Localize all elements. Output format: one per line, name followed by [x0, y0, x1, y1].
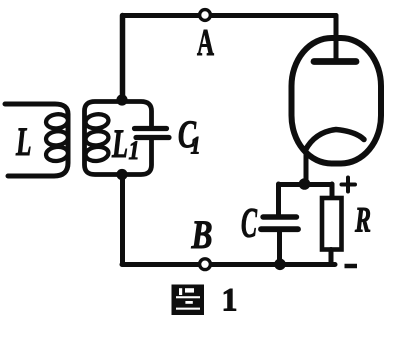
coil L loop 3 [45, 146, 69, 163]
capacitor C1 bottom plate [136, 135, 169, 140]
tube V1 envelope [292, 38, 382, 164]
primary coil L frame (top and bottom leads) [5, 104, 68, 176]
coil L loop 1 [45, 113, 69, 130]
wire: cathode node horizontal [279, 182, 333, 187]
tube plate (anode) [314, 58, 356, 65]
svg-text:1: 1 [129, 136, 140, 165]
wire: down to resistor R [330, 184, 335, 199]
coil L1 loop 1 [85, 113, 110, 130]
wire: resistor R to bottom line [329, 250, 334, 265]
junction dot: L1 bottom [116, 169, 127, 180]
svg-text:L: L [15, 119, 31, 164]
svg-text:L: L [111, 121, 128, 166]
wire: top horizontal A-line [123, 13, 336, 18]
svg-text:1: 1 [191, 133, 201, 160]
wire: capacitor C to bottom line [277, 231, 282, 265]
resistor R body [322, 198, 342, 250]
plus sign [342, 178, 356, 192]
wire: down to capacitor C [276, 184, 281, 215]
coil L1 loop 2 [85, 130, 110, 147]
svg-text:B: B [191, 212, 213, 257]
minus sign [345, 264, 358, 269]
junction dot: C bottom [274, 259, 286, 271]
coil L loop 2 [45, 130, 69, 147]
secondary tank loop L1/C1 frame [85, 102, 152, 175]
capacitor C top plate [263, 214, 297, 219]
coil L1 loop 3 [85, 146, 110, 163]
tube cathode lead [304, 148, 309, 184]
capacitor C1 top plate [135, 126, 167, 131]
capacitor C bottom plate [261, 226, 298, 232]
node B terminal [200, 259, 211, 270]
wire: left vertical from L1 tank to bottom line [120, 175, 125, 265]
tube plate lead [334, 16, 339, 62]
tube cathode/filament arc [306, 130, 365, 151]
node A terminal [200, 10, 211, 21]
wire: left vertical from top line to L1 tank [120, 16, 126, 102]
caption: figure character 圖 [172, 285, 205, 316]
junction dot: L1 top [116, 94, 127, 105]
svg-text:A: A [197, 22, 214, 64]
svg-text:1: 1 [222, 283, 238, 319]
junction dot: cathode node [299, 178, 311, 190]
svg-text:R: R [354, 200, 371, 240]
capacitor C1 gap (series break in tank right side) [145, 131, 158, 136]
wire: bottom horizontal B-line [122, 262, 335, 267]
svg-text:C: C [241, 201, 258, 247]
